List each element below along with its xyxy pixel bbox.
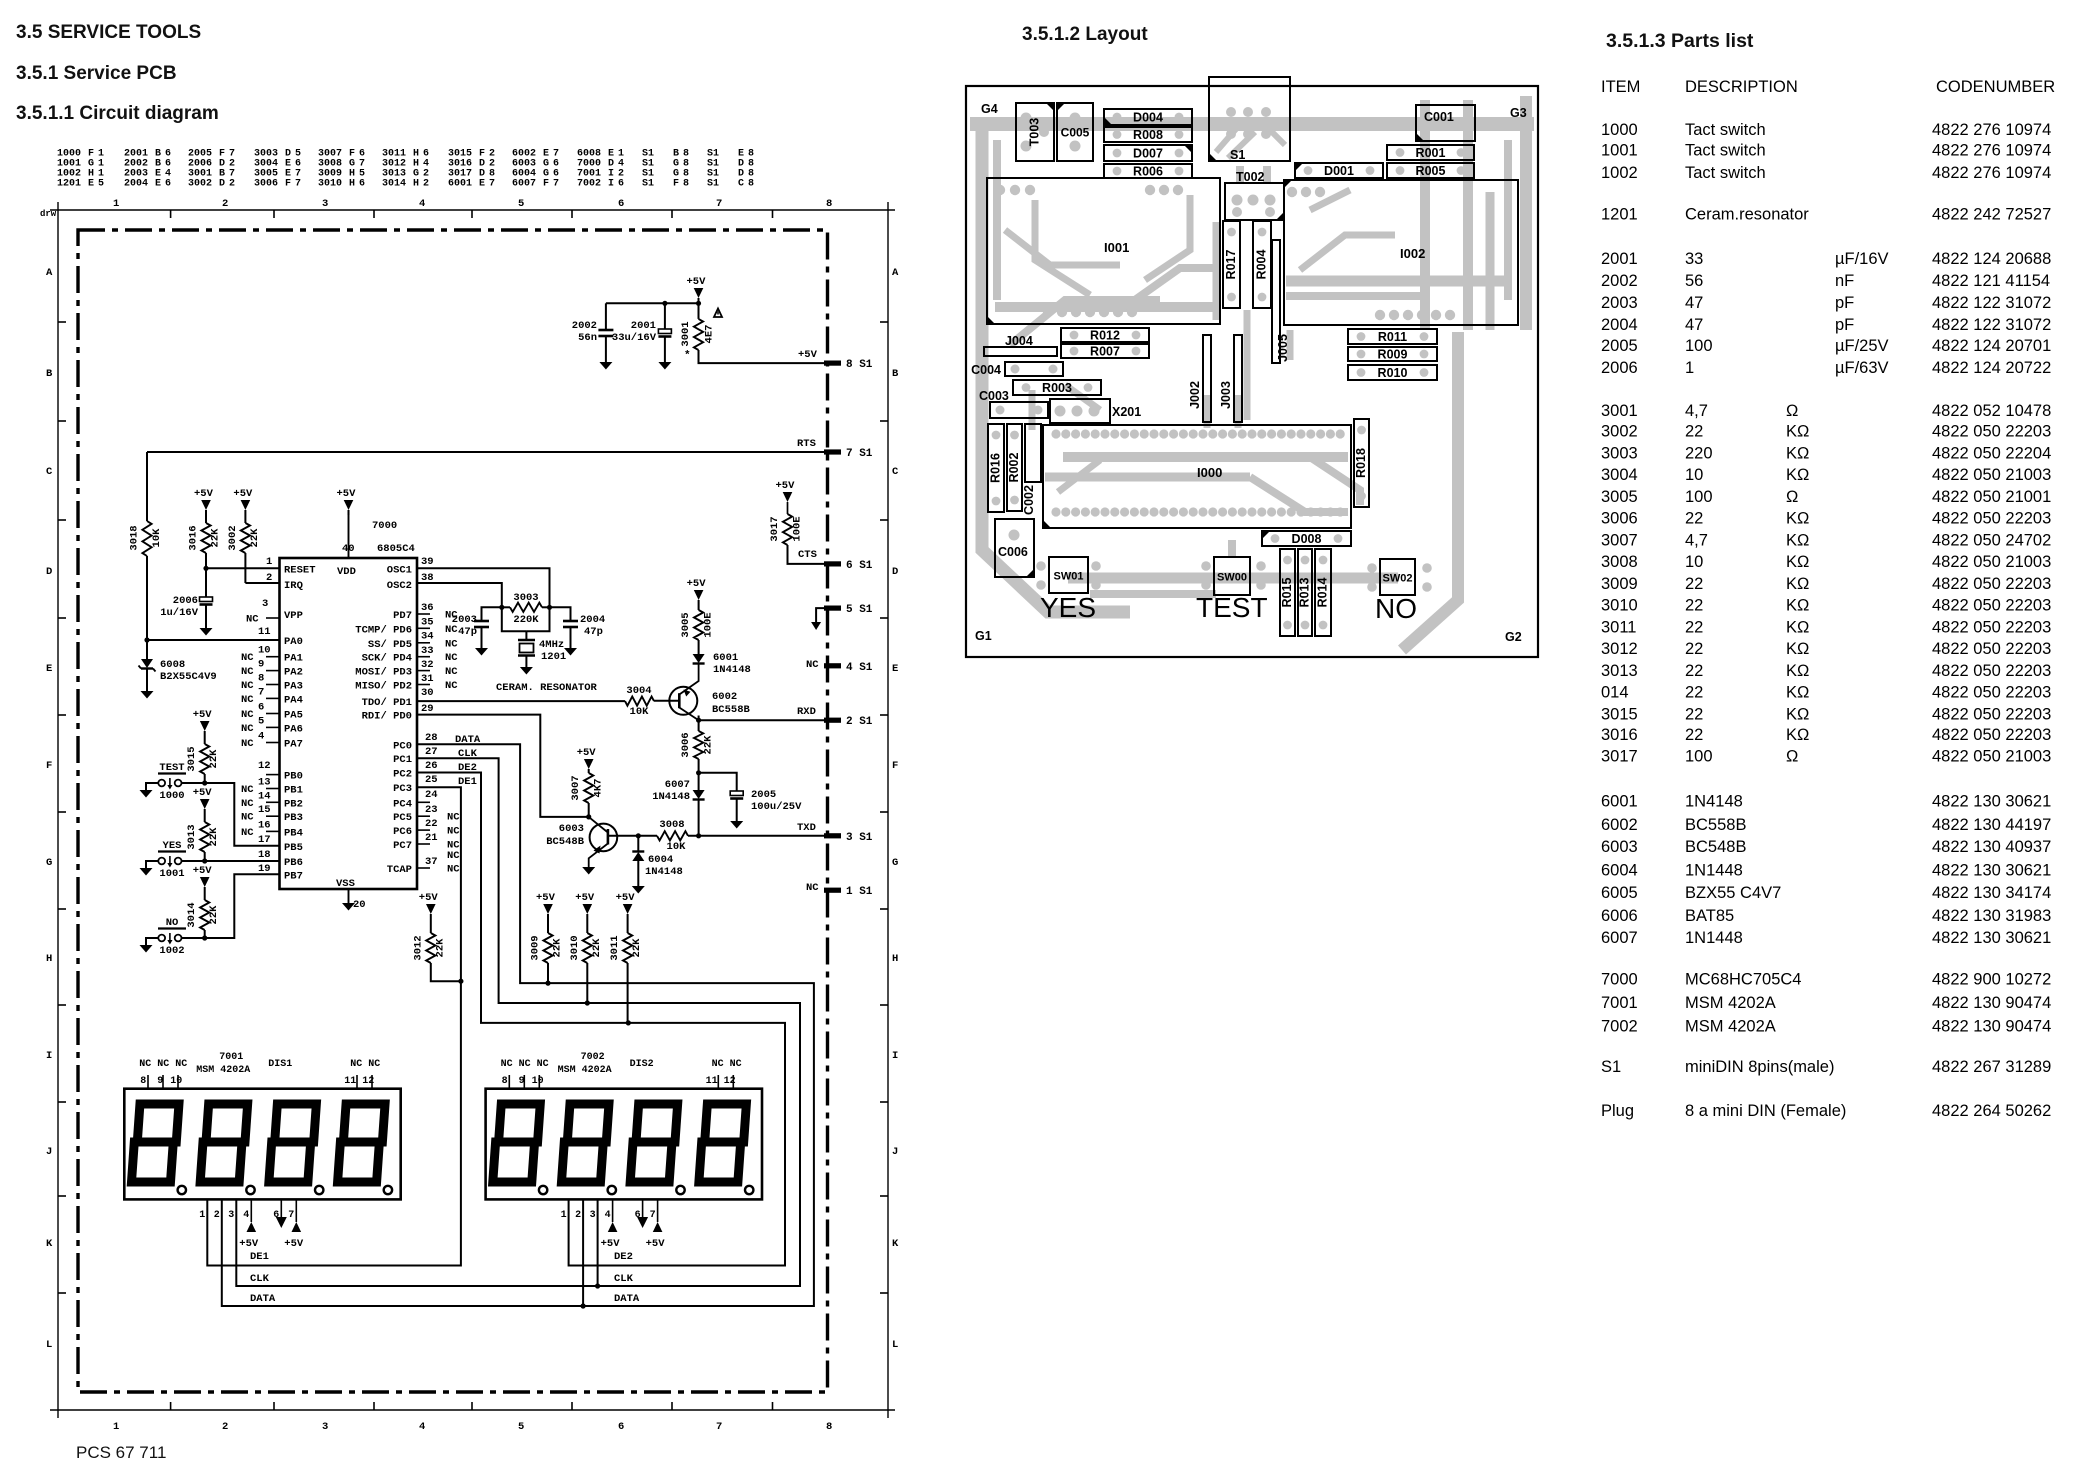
svg-text:drw: drw <box>40 209 57 219</box>
PCB component R008 <box>1104 127 1192 142</box>
svg-text:H: H <box>46 953 52 965</box>
wire RXD <box>696 706 824 723</box>
svg-text:MC68HC705C4: MC68HC705C4 <box>1685 971 1801 989</box>
wire 3012 to DE1 <box>431 963 461 981</box>
pin 22 NC <box>417 818 460 838</box>
S1 pin 2 <box>824 716 873 728</box>
svg-text:R009: R009 <box>1378 348 1408 362</box>
svg-text:11: 11 <box>258 626 271 638</box>
svg-text:G4: G4 <box>981 102 998 116</box>
PCB component T002 <box>1225 183 1284 220</box>
decimal point <box>676 1186 684 1194</box>
svg-text:KΩ: KΩ <box>1786 444 1809 462</box>
PCB component R018 <box>1354 419 1369 507</box>
wire YES to PB6 <box>182 858 280 863</box>
svg-text:H: H <box>413 179 419 190</box>
PCB component R012 <box>1061 328 1149 342</box>
svg-text:37: 37 <box>425 856 438 868</box>
PCB component X201 <box>1050 399 1110 423</box>
svg-text:24: 24 <box>425 789 438 801</box>
svg-text:NC: NC <box>447 850 460 862</box>
svg-text:4822 242 72527: 4822 242 72527 <box>1932 206 2051 224</box>
svg-text:MSM 4202A: MSM 4202A <box>1685 1017 1776 1035</box>
ground <box>632 886 645 894</box>
svg-text:6 S1: 6 S1 <box>846 560 873 572</box>
svg-text:*: * <box>684 350 691 362</box>
PCB pads <box>995 107 1455 592</box>
svg-text:12: 12 <box>258 760 271 772</box>
label 7001 MSM 4202A <box>196 1052 250 1076</box>
svg-text:J: J <box>46 1146 52 1158</box>
svg-text:31: 31 <box>421 673 434 685</box>
svg-text:7000: 7000 <box>372 520 397 532</box>
svg-text:2004: 2004 <box>124 179 148 190</box>
svg-text:1 S1: 1 S1 <box>846 886 873 898</box>
svg-text:7: 7 <box>716 1421 722 1433</box>
ground <box>658 362 671 370</box>
svg-text:2003: 2003 <box>1601 294 1638 312</box>
svg-text:1: 1 <box>266 556 272 568</box>
svg-text:PB5: PB5 <box>284 842 303 854</box>
svg-text:TDO/ PD1: TDO/ PD1 <box>362 697 412 709</box>
capacitor 2003 47p <box>452 607 502 648</box>
svg-text:22K: 22K <box>208 749 220 769</box>
svg-text:2003: 2003 <box>452 614 477 626</box>
svg-text:4822 900 10272: 4822 900 10272 <box>1932 971 2051 989</box>
pin 14 <box>241 790 280 810</box>
power +5V <box>536 892 556 933</box>
svg-text:CLK: CLK <box>614 1273 634 1285</box>
PCB component D007 <box>1104 145 1192 161</box>
svg-text:NC: NC <box>241 666 254 678</box>
svg-text:F: F <box>673 179 679 190</box>
resistor 3016 <box>188 523 222 553</box>
svg-text:16: 16 <box>258 819 271 831</box>
svg-text:35: 35 <box>421 616 434 628</box>
svg-text:1N1448: 1N1448 <box>1685 929 1743 947</box>
resistor 3014 <box>186 900 220 939</box>
svg-text:SW00: SW00 <box>1217 572 1247 584</box>
svg-text:100E: 100E <box>703 612 715 637</box>
svg-text:7000: 7000 <box>1601 971 1638 989</box>
svg-text:20: 20 <box>353 899 366 911</box>
svg-text:22K: 22K <box>591 938 603 958</box>
svg-text:8: 8 <box>748 179 754 190</box>
svg-text:3010: 3010 <box>569 935 581 960</box>
svg-text:26: 26 <box>425 760 438 772</box>
svg-text:G1: G1 <box>975 629 992 643</box>
svg-text:C: C <box>892 466 899 478</box>
svg-text:1N4148: 1N4148 <box>1685 793 1743 811</box>
PCB component R015 <box>1280 549 1295 636</box>
svg-text:PA2: PA2 <box>284 667 303 679</box>
svg-text:NC NC: NC NC <box>350 1059 380 1070</box>
svg-text:3013: 3013 <box>186 824 198 849</box>
svg-text:R018: R018 <box>1354 448 1368 478</box>
svg-text:D007: D007 <box>1133 147 1163 161</box>
svg-text:+5V: +5V <box>419 892 439 904</box>
svg-text:6002: 6002 <box>1601 816 1638 834</box>
svg-text:KΩ: KΩ <box>1786 466 1809 484</box>
svg-text:4822 276 10974: 4822 276 10974 <box>1932 121 2051 139</box>
svg-text:Ω: Ω <box>1786 402 1798 420</box>
svg-text:R008: R008 <box>1133 128 1163 142</box>
PCB component J004 <box>984 347 1057 356</box>
svg-text:7002: 7002 <box>1601 1017 1638 1035</box>
svg-text:C: C <box>738 179 744 190</box>
wire pin5 stub <box>811 608 824 630</box>
svg-text:DATA: DATA <box>250 1293 276 1305</box>
pin 32 NC <box>417 652 458 671</box>
svg-text:6: 6 <box>618 198 624 210</box>
parts list table <box>1601 78 2055 1120</box>
svg-text:VPP: VPP <box>284 610 303 622</box>
svg-text:KΩ: KΩ <box>1786 684 1809 702</box>
pin PA5 NC <box>241 702 280 722</box>
svg-text:3: 3 <box>262 598 268 610</box>
svg-text:4822 130 90474: 4822 130 90474 <box>1932 994 2051 1012</box>
ground <box>520 667 533 675</box>
svg-text:22K: 22K <box>703 735 715 755</box>
svg-text:100: 100 <box>1685 488 1713 506</box>
svg-text:E: E <box>155 179 161 190</box>
svg-text:4822 267 31289: 4822 267 31289 <box>1932 1058 2051 1076</box>
wire RESET pin1 <box>203 553 279 571</box>
svg-text:D004: D004 <box>1133 111 1163 125</box>
7-segment digit DIS2.3 <box>630 1104 677 1182</box>
svg-text:A: A <box>46 267 53 279</box>
svg-text:NC: NC <box>246 614 259 626</box>
svg-text:+5V: +5V <box>646 1238 666 1250</box>
power +5V <box>193 865 213 900</box>
svg-text:CERAM. RESONATOR: CERAM. RESONATOR <box>496 682 598 694</box>
svg-text:2001: 2001 <box>1601 250 1638 268</box>
svg-text:PB4: PB4 <box>284 827 303 839</box>
pin7 +5V <box>284 1199 304 1250</box>
svg-text:4: 4 <box>243 1210 249 1221</box>
switch 1001 YES <box>158 840 186 880</box>
resistor 3011 22K <box>609 933 643 1023</box>
svg-text:DIS1: DIS1 <box>268 1059 292 1070</box>
PCB component R009 <box>1348 347 1437 361</box>
svg-text:4822 130 34174: 4822 130 34174 <box>1932 884 2051 902</box>
svg-text:VDD: VDD <box>337 566 356 578</box>
wire IRQ pin2 <box>245 553 279 583</box>
resistor 3009 22K <box>530 933 564 983</box>
svg-text:BC548B: BC548B <box>1685 838 1746 856</box>
decimal point <box>608 1186 616 1194</box>
svg-text:PB2: PB2 <box>284 798 303 810</box>
pin PA2 NC <box>241 659 280 679</box>
svg-text:NC: NC <box>241 652 254 664</box>
svg-text:pF: pF <box>1835 294 1854 312</box>
svg-text:PA3: PA3 <box>284 681 303 693</box>
schematic border frame ruler <box>40 198 899 1433</box>
svg-text:22K: 22K <box>208 905 220 925</box>
svg-text:+5V: +5V <box>284 1238 304 1250</box>
svg-text:KΩ: KΩ <box>1786 726 1809 744</box>
svg-text:15: 15 <box>258 804 271 816</box>
svg-text:4822 050 24702: 4822 050 24702 <box>1932 531 2051 549</box>
svg-text:1N4148: 1N4148 <box>713 664 751 676</box>
ground <box>582 867 595 875</box>
svg-text:R002: R002 <box>1007 453 1021 483</box>
svg-text:22: 22 <box>1685 662 1703 680</box>
7-segment digit DIS2.2 <box>561 1104 608 1182</box>
svg-text:NC: NC <box>241 738 254 750</box>
dash-dot schematic border <box>78 230 828 1392</box>
transistor Q6003 BC548B <box>546 817 657 867</box>
svg-text:22: 22 <box>1685 618 1703 636</box>
svg-text:C003: C003 <box>979 389 1009 403</box>
pin 13 <box>241 777 280 797</box>
svg-text:BC558B: BC558B <box>1685 816 1746 834</box>
svg-text:4: 4 <box>258 731 264 743</box>
diode 6007 1N4148 <box>652 773 704 836</box>
svg-text:3005: 3005 <box>1601 488 1638 506</box>
svg-text:4822 050 22203: 4822 050 22203 <box>1932 705 2051 723</box>
svg-text:6: 6 <box>618 1421 624 1433</box>
svg-text:10K: 10K <box>667 841 687 853</box>
svg-text:1: 1 <box>113 1421 119 1433</box>
svg-text:KΩ: KΩ <box>1786 423 1809 441</box>
svg-text:4: 4 <box>419 198 425 210</box>
svg-text:ITEM: ITEM <box>1601 78 1640 96</box>
svg-text:7002: 7002 <box>581 1052 605 1063</box>
capacitor 2006 <box>160 568 212 628</box>
pin 34 NC <box>417 624 458 643</box>
wire RDI/PD0 to base <box>417 715 589 817</box>
svg-text:6002: 6002 <box>712 691 737 703</box>
svg-text:2 S1: 2 S1 <box>846 716 873 728</box>
svg-text:PB6: PB6 <box>284 857 303 869</box>
capacitor 2004 47p <box>550 607 606 648</box>
svg-text:µF/16V: µF/16V <box>1835 250 1889 268</box>
svg-text:PA0: PA0 <box>284 636 303 648</box>
svg-text:47p: 47p <box>584 626 603 638</box>
PCB component R004 <box>1253 221 1271 308</box>
svg-text:PA1: PA1 <box>284 653 303 665</box>
pin 37 TCAP NC <box>417 856 460 876</box>
svg-text:7: 7 <box>553 179 559 190</box>
svg-text:3016: 3016 <box>1601 726 1638 744</box>
S1 pin 4 NC <box>806 659 873 674</box>
svg-text:220: 220 <box>1685 444 1713 462</box>
svg-text:NC: NC <box>241 709 254 721</box>
svg-text:K: K <box>46 1238 53 1250</box>
PCB IC I001 <box>987 178 1220 324</box>
svg-text:3009: 3009 <box>1601 575 1638 593</box>
svg-text:BZX55 C4V7: BZX55 C4V7 <box>1685 884 1781 902</box>
PCB component R017 <box>1223 221 1240 308</box>
wire TDO/PD1 <box>417 700 625 702</box>
7-segment digit DIS2.4 <box>699 1104 746 1182</box>
svg-text:R003: R003 <box>1042 381 1072 395</box>
svg-text:22: 22 <box>1685 423 1703 441</box>
svg-text:4822 122 31072: 4822 122 31072 <box>1932 316 2051 334</box>
S1 pin 3 <box>824 832 873 844</box>
svg-text:1000: 1000 <box>159 790 184 802</box>
svg-text:7002: 7002 <box>577 179 601 190</box>
svg-text:R001: R001 <box>1416 146 1446 160</box>
svg-text:22: 22 <box>1685 510 1703 528</box>
svg-text:MOSI/ PD3: MOSI/ PD3 <box>355 667 412 679</box>
svg-text:PB3: PB3 <box>284 812 303 824</box>
svg-text:6001: 6001 <box>713 652 738 664</box>
svg-text:4: 4 <box>419 1421 425 1433</box>
svg-text:Ω: Ω <box>1786 748 1798 766</box>
PCB component R016 <box>988 424 1004 512</box>
svg-text:BAT85: BAT85 <box>1685 907 1734 925</box>
power +5V <box>577 747 597 773</box>
power +5V <box>233 488 253 523</box>
S1 pin 5 <box>824 604 873 616</box>
wire to ground <box>146 783 158 790</box>
svg-text:C002: C002 <box>1022 485 1036 515</box>
svg-text:Ceram.resonator: Ceram.resonator <box>1685 206 1809 224</box>
svg-text:3010: 3010 <box>1601 597 1638 615</box>
svg-text:RESET: RESET <box>284 565 316 577</box>
svg-text:PA6: PA6 <box>284 723 303 735</box>
pin 12 stub <box>266 774 280 776</box>
svg-text:22: 22 <box>1685 705 1703 723</box>
svg-text:2: 2 <box>222 198 228 210</box>
svg-text:3001: 3001 <box>680 321 692 346</box>
pin 25 DE1 <box>425 774 477 788</box>
pins 1-7 DIS2 <box>561 1210 656 1221</box>
svg-text:1201: 1201 <box>1601 206 1638 224</box>
pin 30 NC <box>417 680 458 699</box>
diode 6001 1N4148 <box>693 640 751 676</box>
svg-text:R015: R015 <box>1280 578 1294 608</box>
svg-text:30: 30 <box>421 687 434 699</box>
PCB component D008 <box>1262 531 1351 546</box>
PCB component R001 <box>1387 145 1474 160</box>
svg-text:E: E <box>88 179 94 190</box>
switch 1000 TEST <box>158 762 186 802</box>
svg-text:PC6: PC6 <box>393 826 412 838</box>
svg-text:F: F <box>46 760 52 772</box>
svg-text:2002: 2002 <box>1601 272 1638 290</box>
wire node PA0 <box>144 556 279 643</box>
power +5V <box>193 787 213 822</box>
svg-text:G: G <box>46 857 52 869</box>
svg-text:100E: 100E <box>792 516 804 541</box>
svg-text:3: 3 <box>228 1210 234 1221</box>
svg-text:PB0: PB0 <box>284 771 303 783</box>
svg-text:CLK: CLK <box>250 1273 270 1285</box>
svg-text:47: 47 <box>1685 316 1703 334</box>
pin 33 NC <box>417 638 458 657</box>
svg-text:4822 050 22203: 4822 050 22203 <box>1932 662 2051 680</box>
svg-text:3013: 3013 <box>1601 662 1638 680</box>
svg-text:Tact switch: Tact switch <box>1685 164 1766 182</box>
power +5V <box>419 892 439 933</box>
svg-text:I002: I002 <box>1400 246 1425 261</box>
svg-text:S1: S1 <box>1230 148 1245 162</box>
svg-text:1002: 1002 <box>159 945 184 957</box>
svg-text:NC NC NC: NC NC NC <box>139 1059 187 1070</box>
svg-text:27: 27 <box>425 746 438 758</box>
svg-text:3007: 3007 <box>570 775 582 800</box>
svg-text:6006: 6006 <box>1601 907 1638 925</box>
svg-text:I: I <box>892 1050 898 1062</box>
svg-text:6007: 6007 <box>1601 929 1638 947</box>
svg-text:3: 3 <box>322 198 328 210</box>
resistor 3018 <box>129 521 164 556</box>
svg-text:3: 3 <box>590 1210 596 1221</box>
PCB copper traces <box>970 96 1534 650</box>
svg-text:22: 22 <box>425 818 438 830</box>
svg-text:+5V: +5V <box>687 276 707 288</box>
ground <box>140 945 153 953</box>
svg-text:MSM 4202A: MSM 4202A <box>196 1065 250 1076</box>
svg-text:KΩ: KΩ <box>1786 510 1809 528</box>
svg-text:3017: 3017 <box>769 516 781 541</box>
svg-text:2001: 2001 <box>631 320 656 332</box>
svg-text:NC: NC <box>445 680 458 692</box>
svg-text:µF/25V: µF/25V <box>1835 337 1889 355</box>
pin PA6 NC <box>241 715 280 735</box>
svg-text:+5V: +5V <box>193 865 213 877</box>
svg-text:KΩ: KΩ <box>1786 705 1809 723</box>
7-segment digit DIS1.1 <box>131 1104 178 1182</box>
svg-text:OSC1: OSC1 <box>387 565 412 577</box>
zener diode 6008 BZX55C4V9 <box>139 640 217 691</box>
svg-text:7: 7 <box>489 179 495 190</box>
svg-text:NC: NC <box>445 666 458 678</box>
svg-text:4822 050 22203: 4822 050 22203 <box>1932 423 2051 441</box>
svg-text:+5V: +5V <box>233 488 253 500</box>
svg-text:4MHz: 4MHz <box>539 639 564 651</box>
decimal point <box>246 1186 254 1194</box>
svg-text:1N4148: 1N4148 <box>645 866 683 878</box>
svg-text:3: 3 <box>322 1421 328 1433</box>
svg-text:T003: T003 <box>1028 118 1042 147</box>
PCB IC I002 <box>1284 180 1518 325</box>
svg-text:+5V: +5V <box>239 1238 259 1250</box>
svg-text:4822 050 22204: 4822 050 22204 <box>1932 444 2051 462</box>
svg-text:22K: 22K <box>552 938 564 958</box>
PCB switch SW00 <box>1214 557 1250 595</box>
wire RTS to 3018 <box>146 452 148 521</box>
svg-text:100: 100 <box>1685 337 1713 355</box>
svg-text:1: 1 <box>561 1210 567 1221</box>
ceramic resonator 1201 4MHz <box>502 607 566 667</box>
svg-text:Tact switch: Tact switch <box>1685 121 1766 139</box>
svg-text:8: 8 <box>502 1076 508 1087</box>
svg-text:D: D <box>46 566 52 578</box>
pins 11 12 DIS2 <box>706 1059 742 1089</box>
pin 23 NC <box>417 804 460 824</box>
pin PA1 NC <box>241 645 280 665</box>
svg-text:5: 5 <box>258 715 264 727</box>
transistor Q6002 BC558B <box>654 665 751 721</box>
svg-text:4822 276 10974: 4822 276 10974 <box>1932 142 2051 160</box>
svg-text:PA5: PA5 <box>284 710 303 722</box>
svg-text:4: 4 <box>605 1210 611 1221</box>
svg-text:10: 10 <box>170 1076 182 1087</box>
svg-text:4822 130 30621: 4822 130 30621 <box>1932 861 2051 879</box>
resistor 3003 220K <box>502 592 550 626</box>
svg-text:6: 6 <box>359 179 365 190</box>
svg-text:I001: I001 <box>1104 240 1129 255</box>
svg-text:5 S1: 5 S1 <box>846 604 873 616</box>
resistor 3015 <box>186 744 220 783</box>
svg-text:+5V: +5V <box>798 349 818 361</box>
svg-text:3001: 3001 <box>1601 402 1638 420</box>
svg-text:+5V: +5V <box>337 488 357 500</box>
